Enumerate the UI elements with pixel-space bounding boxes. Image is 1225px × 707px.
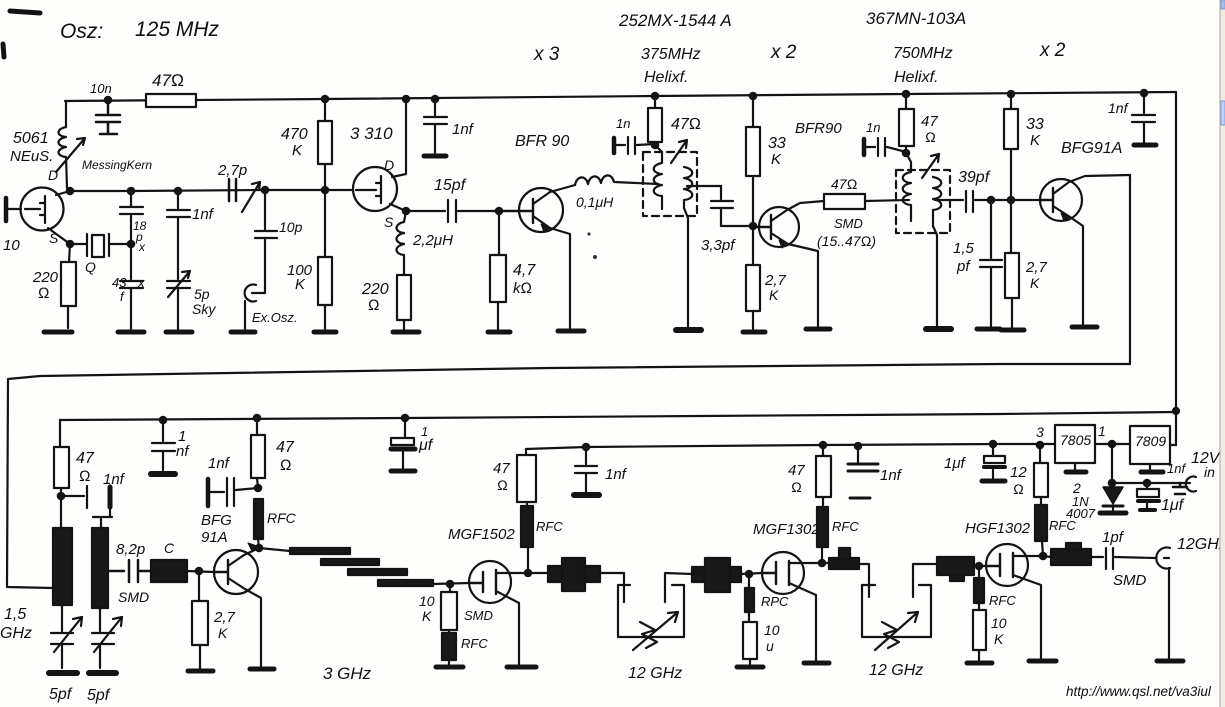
svg-text:1nf: 1nf — [208, 455, 231, 472]
transformer T2 dashed box — [896, 170, 950, 233]
node 47 ohm T2 top — [903, 91, 909, 97]
svg-text:1nf: 1nf — [1167, 461, 1186, 476]
svg-text:33: 33 — [1026, 116, 1044, 133]
wire gate — [7, 208, 21, 210]
capacitor 8,2p — [108, 560, 151, 582]
wire long output line A — [7, 364, 1130, 588]
svg-text:http://www.qsl.net/va3iul: http://www.qsl.net/va3iul — [1066, 684, 1212, 699]
cavity1 tuning arrow — [633, 612, 678, 650]
node right edge — [1173, 408, 1179, 414]
svg-text:1μf: 1μf — [1161, 497, 1185, 514]
coupling block 1 — [548, 566, 600, 582]
resistor 47 ohm stage4 — [822, 445, 824, 507]
node base BFG91A — [1008, 197, 1014, 203]
svg-text:Ω: Ω — [280, 457, 292, 474]
wire blob4 to gate stage5 — [974, 565, 986, 567]
microstrip bar 2 — [321, 559, 379, 565]
node base BFR90 no.2 — [750, 223, 756, 229]
capacitor 1nf stage3 — [575, 447, 597, 492]
resistor 33K — [752, 96, 754, 226]
svg-text:GHz: GHz — [0, 625, 32, 642]
BFR90 emitter arrow — [541, 224, 550, 232]
svg-text:1,5: 1,5 — [4, 606, 26, 623]
resistor 470K — [324, 99, 326, 190]
wire 7805 to 7809 — [1095, 443, 1130, 445]
capacitor 2,7p series — [229, 179, 236, 201]
svg-text:nf: nf — [176, 443, 190, 460]
node drain 3310 — [403, 96, 409, 102]
wire to MGF1502 gate — [432, 583, 469, 584]
node 1uf stage5 rail — [990, 441, 996, 447]
svg-text:47: 47 — [788, 462, 805, 479]
BFR90 no.2 collector — [771, 201, 824, 221]
node gate stage4 — [746, 571, 752, 577]
ground 7805 — [1074, 463, 1076, 471]
resistor 47 ohm stage2 — [54, 447, 69, 488]
svg-text:in: in — [1204, 464, 1215, 480]
choke RFC stage3 — [448, 630, 450, 633]
BFG91A collector — [1053, 175, 1130, 194]
svg-text:RFC: RFC — [989, 593, 1016, 608]
node 18p row — [128, 188, 134, 194]
node 1nf stage3 — [583, 444, 589, 450]
svg-text:1nf: 1nf — [452, 121, 475, 138]
capacitor 1nf stage2 — [61, 486, 87, 508]
capacitor 18p — [120, 191, 143, 244]
BFG91A stage2 collector — [228, 548, 259, 566]
resonator coax line no.1 — [53, 528, 72, 605]
BFG91A emitter arrow — [1061, 213, 1070, 221]
capacitor C SMD block — [151, 560, 187, 582]
svg-text:Ω: Ω — [79, 468, 91, 485]
svg-text:91A: 91A — [201, 529, 228, 546]
svg-text:MessingKern: MessingKern — [82, 158, 152, 172]
wire drain stage5 to blob5 — [1043, 556, 1051, 557]
svg-text:Helixf.: Helixf. — [644, 69, 688, 86]
svg-text:RFC: RFC — [461, 636, 488, 651]
svg-text:4,7: 4,7 — [513, 262, 536, 279]
svg-text:K: K — [422, 608, 432, 624]
BFR90 emitter — [533, 216, 570, 328]
svg-text:RPC: RPC — [761, 594, 789, 609]
ground trimmer no.1 — [49, 670, 77, 676]
svg-text:1nf: 1nf — [103, 471, 126, 488]
node diode top — [1109, 441, 1115, 447]
svg-text:1nf: 1nf — [192, 206, 215, 223]
svg-text:u: u — [766, 638, 774, 654]
trimmer arrow 2,7p — [242, 182, 260, 212]
scrollbar thumb — [1221, 101, 1225, 125]
svg-text:RFC: RFC — [832, 519, 859, 534]
svg-text:5pf: 5pf — [49, 686, 73, 703]
ground 43p — [118, 330, 144, 335]
svg-text:7805: 7805 — [1060, 432, 1091, 448]
wire T2 secondary bottom to ground — [933, 226, 937, 326]
node source 3310 — [403, 208, 409, 214]
svg-text:BFR 90: BFR 90 — [515, 133, 569, 150]
svg-text:K: K — [1030, 275, 1040, 291]
svg-text:2,7p: 2,7p — [217, 162, 247, 179]
svg-text:47: 47 — [493, 460, 510, 477]
wire drain 3310 — [392, 99, 406, 177]
svg-text:(15..47Ω): (15..47Ω) — [817, 233, 876, 249]
svg-text:47Ω: 47Ω — [152, 71, 184, 90]
ground 220 ohm — [44, 330, 72, 335]
ground T2 — [926, 326, 951, 332]
node 1nf rail stage2 — [160, 417, 166, 423]
svg-text:x 2: x 2 — [770, 42, 797, 63]
svg-text:10: 10 — [764, 622, 780, 638]
svg-text:12: 12 — [1010, 464, 1027, 481]
capacitor 1nf flying stage4 — [848, 464, 878, 471]
choke RFC stage5 drain — [1035, 505, 1047, 541]
svg-text:Helixf.: Helixf. — [894, 69, 938, 86]
capacitor 1n (T2) — [862, 139, 867, 155]
transistor FET oscillator (circle) — [21, 188, 64, 231]
trimmer 5pf no.1 — [51, 605, 82, 668]
resistor 220 ohm (3310) — [397, 275, 411, 320]
capacitor 1nf top right — [1132, 93, 1155, 143]
FET 3310 internals — [356, 176, 381, 203]
node 1nf stage2 — [58, 493, 64, 499]
ground MGF1302 stage4 — [804, 661, 829, 666]
wire T1 secondary bottom to ground — [684, 208, 688, 327]
node 10n — [105, 97, 111, 103]
node after 2,7p — [262, 187, 268, 193]
T2 tuning arrow — [922, 154, 939, 178]
wire blob2 to gate stage4 — [741, 573, 762, 574]
svg-text:MGF1302: MGF1302 — [753, 521, 820, 538]
scan mark top-left — [10, 11, 40, 13]
ground 10u stage4 — [737, 665, 763, 670]
MGF1502 internals — [469, 570, 496, 594]
node 1nf row — [175, 188, 181, 194]
regulator 7809 — [1130, 426, 1170, 464]
ground 4,7k — [488, 330, 510, 335]
node 470K row — [322, 187, 328, 193]
node drain MGF1502 — [525, 570, 531, 576]
svg-text:C: C — [164, 540, 175, 556]
svg-text:K: K — [769, 287, 779, 303]
svg-text:Ω: Ω — [497, 477, 508, 493]
node source — [67, 241, 73, 247]
capacitor 1pf SMD out — [1091, 548, 1155, 569]
svg-text:Ex.Osz.: Ex.Osz. — [252, 310, 298, 325]
BFR90 no.2 emitter arrow — [779, 240, 788, 248]
svg-text:RFC: RFC — [267, 510, 297, 526]
svg-text:750MHz: 750MHz — [893, 45, 953, 62]
svg-text:x 2: x 2 — [1039, 40, 1066, 61]
BFR90 no.2 internals — [753, 215, 771, 239]
resistor 2,7K no.2 — [1011, 200, 1012, 328]
svg-text:12 GHz: 12 GHz — [628, 665, 682, 682]
svg-text:4007: 4007 — [1066, 506, 1096, 521]
ground T1 — [676, 327, 701, 333]
trimmer arrow through coil — [56, 138, 85, 172]
svg-text:1nf: 1nf — [1108, 100, 1130, 116]
capacitor 3,3pf — [711, 186, 753, 226]
svg-text:12GHz: 12GHz — [1177, 536, 1225, 553]
coupling block 4 — [937, 557, 974, 575]
wire 12V input — [1112, 482, 1190, 484]
MGF1302 stage5 drain — [1013, 555, 1043, 557]
svg-text:367MN-103A: 367MN-103A — [866, 9, 966, 28]
capacitor 1,5pf — [980, 200, 1002, 326]
choke RPC stage4 — [748, 574, 750, 588]
svg-text:125 MHz: 125 MHz — [135, 18, 220, 41]
svg-text:10: 10 — [419, 593, 435, 609]
ground 5p — [166, 330, 192, 335]
wire 1nf to resonator2 top — [93, 507, 112, 528]
svg-text:47: 47 — [921, 113, 938, 130]
node 33K top — [750, 93, 756, 99]
svg-text:K: K — [994, 631, 1004, 647]
svg-text:K: K — [771, 151, 782, 168]
ground 10K stage3 — [436, 665, 463, 670]
microstrip bar 3 — [348, 569, 407, 575]
transistor BFG91A stage2 — [214, 550, 258, 594]
svg-text:252MX-1544 A: 252MX-1544 A — [618, 11, 732, 30]
svg-text:Osz:: Osz: — [60, 20, 103, 43]
scrollbar track — [1220, 0, 1225, 707]
svg-text:S: S — [384, 214, 394, 230]
svg-text:Ω: Ω — [925, 129, 936, 145]
capacitor 1n (T1) — [612, 138, 617, 153]
svg-text:5p: 5p — [194, 286, 210, 302]
cavity 12GHz no.2 — [862, 564, 937, 637]
svg-text:1,5: 1,5 — [953, 240, 975, 257]
wire drain stage4 to blob3 — [822, 562, 829, 564]
transistor MGF1502 — [469, 561, 511, 603]
choke RFC stage4 — [817, 507, 828, 547]
capacitor 1uF input — [1146, 483, 1148, 489]
resistor 47 ohm (series, horizontal) — [146, 94, 196, 107]
MGF1302 stage4 source — [789, 583, 816, 660]
T1 secondary coil — [684, 167, 692, 208]
scan mark left edge — [3, 44, 4, 57]
cavity1 zigzag — [640, 622, 657, 648]
capacitor 39pf — [966, 191, 1040, 212]
capacitor 1nf osc — [167, 191, 190, 279]
svg-text:pf: pf — [956, 258, 971, 275]
wire rail left corner — [59, 420, 61, 447]
svg-text:47: 47 — [276, 439, 295, 456]
node 1uF rail — [402, 415, 408, 421]
capacitor 10p — [252, 190, 277, 293]
ground BFR90 no.2 — [806, 327, 830, 332]
svg-text:BFG91A: BFG91A — [1061, 140, 1122, 157]
node T1 primary top — [652, 142, 658, 148]
svg-text:43: 43 — [112, 275, 127, 290]
BFR90 no.2 emitter — [771, 233, 818, 326]
BFG91A emitter — [1053, 206, 1083, 324]
svg-text:SMD: SMD — [834, 216, 863, 231]
node collector stage2 — [256, 545, 262, 551]
connector Ex.Osz. — [245, 285, 256, 330]
wire BFG91A output down — [1129, 175, 1131, 364]
node 47 ohm T1 top — [652, 93, 658, 99]
node 1nf flying stage4 — [855, 443, 861, 449]
ground 1uF — [391, 469, 415, 474]
ground 10K stage5 — [967, 661, 992, 666]
svg-text:3: 3 — [1036, 424, 1044, 440]
node gate MGF1502 — [447, 581, 453, 587]
node rail 47ohm stage4 — [820, 442, 826, 448]
diode 1N4007 — [1103, 487, 1123, 504]
svg-text:7809: 7809 — [1135, 433, 1166, 449]
svg-text:8,2p: 8,2p — [116, 541, 145, 558]
resistor 47 ohm b stage2 — [251, 435, 265, 478]
choke RFC stage2 — [254, 499, 263, 539]
choke RFC drain stage3 — [527, 547, 529, 573]
microstrip bar 1 — [259, 548, 290, 551]
BFG91A stage2 collector arrow — [248, 543, 257, 551]
svg-text:2,2μH: 2,2μH — [412, 232, 453, 249]
svg-text:x: x — [137, 275, 145, 290]
svg-text:BFR90: BFR90 — [795, 120, 842, 137]
svg-text:47Ω: 47Ω — [671, 116, 701, 133]
inductor 0,1uH — [575, 175, 658, 185]
MGF1502 drain — [496, 572, 528, 574]
wire +9V top rail — [65, 92, 1176, 101]
connector 12V in — [1186, 477, 1196, 492]
ground trimmer no.2 — [89, 670, 116, 676]
scrollbar track line — [1219, 0, 1221, 707]
svg-text:SMD: SMD — [1113, 572, 1147, 589]
MGF1302 stage4 drain — [789, 562, 822, 564]
svg-text:3,3pf: 3,3pf — [701, 237, 736, 254]
wire T1 secondary tap — [687, 185, 721, 187]
resistor 4,7k — [498, 211, 499, 329]
node gate stage5 — [976, 563, 982, 569]
svg-text:10: 10 — [3, 237, 20, 254]
crystal Q — [70, 234, 131, 256]
ground 220 ohm (3310) — [393, 330, 419, 335]
cavity2 zigzag — [882, 622, 899, 648]
svg-text:1nf: 1nf — [880, 467, 903, 484]
svg-text:3 310: 3 310 — [350, 124, 393, 143]
choke RFC stage5 — [978, 566, 980, 578]
svg-text:SMD: SMD — [118, 589, 149, 605]
capacitor 15pf — [406, 200, 499, 222]
connector 12GHz out — [1156, 548, 1170, 569]
svg-text:kΩ: kΩ — [513, 280, 532, 297]
capacitor 1nf b stage2 — [206, 479, 211, 506]
svg-text:3 GHz: 3 GHz — [323, 664, 372, 683]
resistor 12 ohm — [1040, 445, 1041, 505]
node 1,5pf — [988, 197, 994, 203]
capacitor 43p — [120, 244, 143, 329]
resistor 47 ohm (T2) — [905, 94, 907, 153]
capacitor 1nf input — [1173, 483, 1187, 494]
svg-text:1pf: 1pf — [1102, 529, 1125, 546]
capacitor 1uF electrolytic — [404, 418, 406, 437]
transformer T1 dashed box — [643, 152, 697, 216]
transistor BFR90 no.2 — [759, 207, 799, 247]
svg-text:x: x — [138, 240, 146, 254]
node 1nf top — [432, 96, 438, 102]
wire +5V rail — [526, 444, 1055, 449]
node T2 primary top — [903, 150, 909, 156]
T2 secondary coil — [933, 177, 941, 226]
svg-text:47: 47 — [76, 450, 95, 467]
resistor 10u stage4 — [748, 612, 750, 622]
svg-text:220: 220 — [361, 281, 389, 298]
ground MGF1502 source — [507, 665, 536, 670]
svg-text:1n: 1n — [866, 120, 880, 135]
resistor 10K stage5 — [978, 603, 980, 610]
T2 primary coil — [903, 153, 911, 221]
svg-text:Ω: Ω — [368, 297, 380, 314]
svg-text:Q: Q — [85, 259, 96, 275]
ground 2,7K stage2 — [188, 669, 213, 674]
transistor MGF1302 stage4 — [762, 552, 804, 594]
wire C to base — [187, 571, 214, 572]
ground 100K — [314, 330, 336, 335]
svg-text:f: f — [120, 289, 125, 304]
resonator coax line no.2 — [92, 528, 108, 608]
wire 7809 to right edge — [1170, 444, 1176, 446]
svg-text:K: K — [1030, 132, 1041, 149]
MGF1502 source — [496, 591, 519, 664]
node drain stage4 — [819, 560, 825, 566]
node 1nf top right — [1141, 90, 1147, 96]
inductor 2,2uH — [397, 211, 407, 275]
T1 tuning arrow — [671, 140, 687, 163]
coupling block 5 — [1051, 549, 1091, 565]
BFR90 internals — [499, 199, 533, 223]
wire drain to node — [56, 191, 70, 195]
resistor 220 ohm — [68, 244, 70, 328]
svg-text:33: 33 — [768, 135, 786, 152]
svg-text:39pf: 39pf — [958, 169, 991, 186]
ground 1nf rail stage2 — [151, 471, 175, 477]
svg-text:μf: μf — [418, 437, 434, 454]
ground 1,5pf — [977, 327, 1000, 332]
svg-text:BFG: BFG — [201, 512, 232, 529]
svg-text:1nf: 1nf — [605, 466, 628, 483]
BFG91A internals — [1040, 188, 1053, 212]
node 1nf b stage2 — [255, 485, 261, 491]
svg-text:K: K — [295, 276, 306, 293]
node 4,7k — [496, 208, 502, 214]
svg-text:5pf: 5pf — [87, 687, 111, 704]
capacitor 1nf (3310 rail) — [424, 99, 447, 153]
node drain stage5 — [1040, 553, 1046, 559]
capacitor 1nf rail stage2 — [152, 420, 175, 470]
wire source — [48, 228, 70, 244]
ground BFG91A — [1072, 325, 1097, 330]
wire T2 secondary tap — [935, 199, 963, 201]
wire 47 ohm b stage2 — [257, 418, 258, 488]
svg-text:K: K — [292, 142, 303, 159]
wire drain to blob1 — [528, 572, 548, 574]
svg-text:Sky: Sky — [192, 301, 216, 317]
resistor 47 ohm (T1) — [654, 96, 656, 145]
MGF1302 stage5 source — [1013, 575, 1041, 658]
trimmer 5p Sky — [167, 271, 190, 329]
coupling block 3 — [829, 558, 859, 569]
coupling block 2 — [692, 567, 741, 582]
transistor BFR90 no.1 — [519, 188, 563, 232]
ground 2,7K — [743, 330, 765, 335]
svg-text:Ω: Ω — [791, 479, 802, 495]
microstrip bar 4 — [378, 580, 433, 586]
trimmer 5pf no.2 — [92, 608, 122, 668]
wire main row A — [70, 190, 353, 191]
ground 7809 — [1149, 464, 1151, 471]
resistor 2,7K stage2 — [199, 571, 200, 668]
